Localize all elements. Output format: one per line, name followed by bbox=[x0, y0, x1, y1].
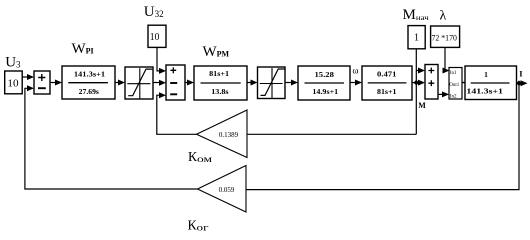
svg-text:ω: ω bbox=[353, 66, 359, 76]
svg-text:M: M bbox=[418, 101, 426, 110]
svg-text:27.69s: 27.69s bbox=[79, 87, 99, 96]
svg-text:λ: λ bbox=[440, 8, 447, 23]
svg-text:1: 1 bbox=[414, 33, 419, 44]
svg-text:141.3s+1: 141.3s+1 bbox=[74, 70, 106, 79]
svg-text:In2: In2 bbox=[450, 94, 457, 99]
svg-text:13.8s: 13.8s bbox=[211, 87, 228, 96]
svg-text:10: 10 bbox=[7, 78, 18, 89]
svg-text:0.471: 0.471 bbox=[377, 70, 397, 79]
svg-text:0.059: 0.059 bbox=[219, 186, 235, 194]
svg-text:72 *170: 72 *170 bbox=[432, 33, 457, 42]
svg-text:0.1389: 0.1389 bbox=[219, 131, 239, 139]
svg-text:81s+1: 81s+1 bbox=[209, 69, 229, 78]
svg-text:Out1: Out1 bbox=[449, 83, 460, 88]
svg-text:14.9s+1: 14.9s+1 bbox=[312, 87, 338, 96]
svg-text:10: 10 bbox=[150, 32, 160, 43]
svg-text:In1: In1 bbox=[450, 71, 457, 76]
svg-text:81s+1: 81s+1 bbox=[377, 87, 397, 96]
svg-text:141.3s+1: 141.3s+1 bbox=[466, 87, 503, 96]
svg-text:1: 1 bbox=[484, 70, 488, 79]
svg-text:15.28: 15.28 bbox=[315, 70, 335, 79]
